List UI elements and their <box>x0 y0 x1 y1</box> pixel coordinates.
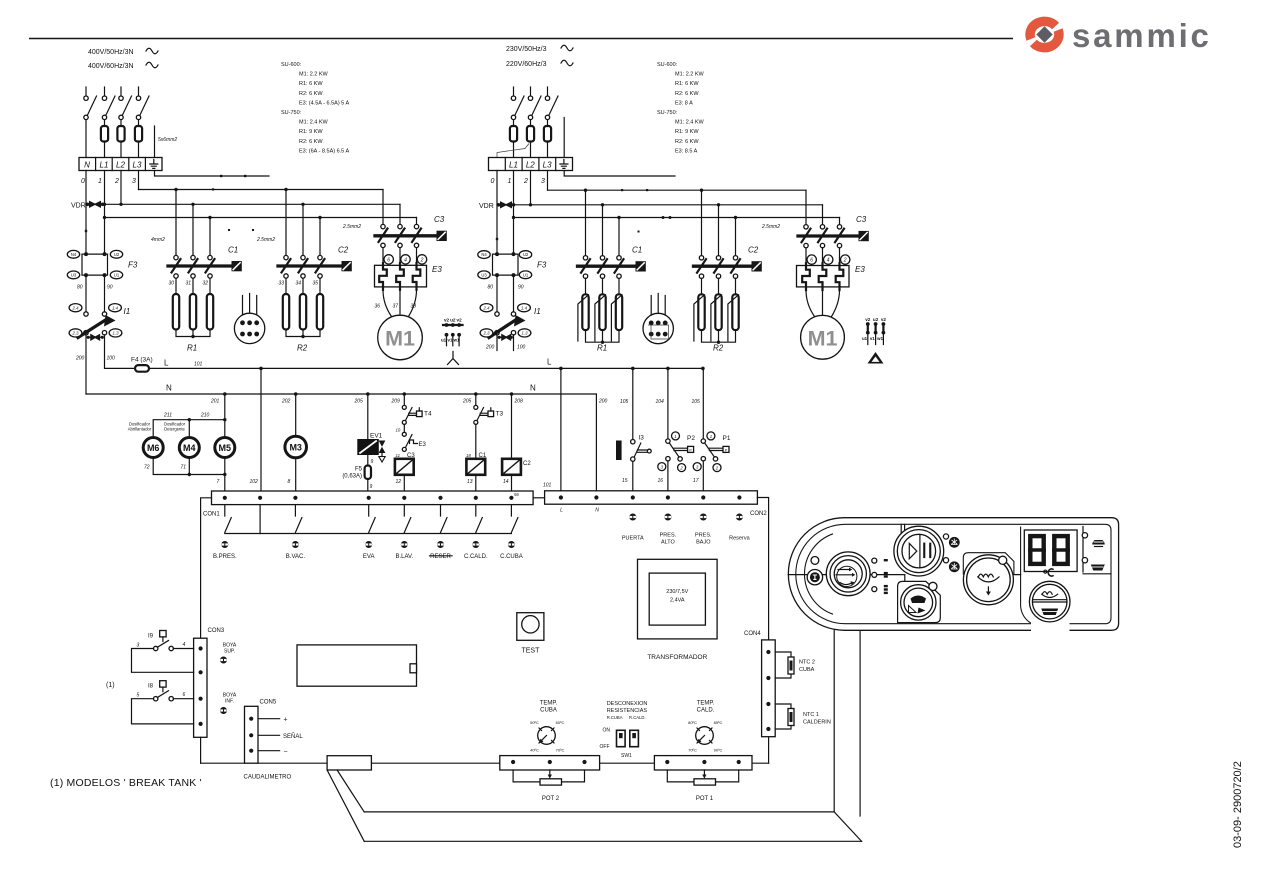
svg-text:NTC 2: NTC 2 <box>799 660 815 666</box>
svg-text:I1: I1 <box>124 307 131 316</box>
svg-text:90: 90 <box>107 285 113 291</box>
svg-text:v2: v2 <box>444 318 450 323</box>
spec text block left <box>281 62 349 154</box>
motor M1 right <box>806 290 840 317</box>
svg-text:(1): (1) <box>106 682 115 689</box>
right mini section <box>1083 527 1111 574</box>
svg-text:R.CUBA: R.CUBA <box>607 715 623 720</box>
ribbon cable <box>327 770 364 841</box>
svg-text:+: + <box>284 717 288 724</box>
rail 2 <box>86 203 400 205</box>
coil C3 <box>395 453 415 475</box>
svg-text:L: L <box>164 359 169 368</box>
display section divider <box>1021 527 1032 624</box>
svg-text:205: 205 <box>354 399 364 405</box>
svg-text:U3: U3 <box>481 272 487 277</box>
rail 2 right <box>497 204 823 206</box>
svg-text:u2: u2 <box>450 318 456 323</box>
svg-text:40ºC: 40ºC <box>530 748 539 753</box>
CON1 cable pins <box>221 541 515 548</box>
svg-text:R2: 6 KW: R2: 6 KW <box>675 91 699 97</box>
svg-text:2.5mm2: 2.5mm2 <box>342 224 361 230</box>
svg-text:M5: M5 <box>219 443 232 453</box>
PCB right edge <box>757 498 768 764</box>
CON1-CON2 link <box>533 497 545 499</box>
svg-text:90: 90 <box>518 285 524 291</box>
svg-text:2: 2 <box>843 258 847 264</box>
earth run <box>155 171 270 177</box>
svg-text:PRES.: PRES. <box>660 533 677 539</box>
LED temp1 + steam icon <box>1082 533 1087 538</box>
svg-text:M1: M1 <box>385 327 415 351</box>
POT1 potentiometer <box>667 770 738 782</box>
svg-text:200: 200 <box>75 356 85 362</box>
svg-text:CAUDALIMETRO: CAUDALIMETRO <box>244 775 292 781</box>
PCB left edge <box>201 498 212 638</box>
svg-text:2.5mm2: 2.5mm2 <box>761 224 780 230</box>
wire 209 / thermostat T4 <box>403 394 405 405</box>
contactor C1 <box>168 246 242 287</box>
svg-text:C1: C1 <box>479 453 487 459</box>
wire 0 down <box>496 171 498 255</box>
CON5 <box>245 706 259 763</box>
wire L3 down <box>547 171 549 191</box>
svg-text:2.4: 2.4 <box>483 306 491 311</box>
wire L1 down <box>513 171 515 255</box>
svg-text:L2: L2 <box>526 161 535 170</box>
svg-text:M3: M3 <box>289 442 302 452</box>
mains switch pole L3 + fuse <box>135 87 149 158</box>
svg-text:INF.: INF. <box>225 699 234 705</box>
svg-text:2.3: 2.3 <box>483 331 491 336</box>
svg-text:−: − <box>284 749 288 756</box>
7seg digit 1 <box>1028 536 1046 564</box>
svg-text:CALDERIN: CALDERIN <box>803 720 831 726</box>
svg-text:2.5mm2: 2.5mm2 <box>256 237 275 243</box>
svg-text:T3: T3 <box>496 411 504 418</box>
svg-text:CUBA: CUBA <box>540 708 557 714</box>
svg-text:200: 200 <box>598 399 608 405</box>
LED temp2 + pot icon <box>1082 558 1087 563</box>
svg-text:N4: N4 <box>481 252 487 257</box>
wire 200 to N <box>85 335 87 394</box>
float switch I9 <box>132 631 194 673</box>
svg-text:EVA: EVA <box>363 554 375 560</box>
7seg digit 2 <box>1052 536 1070 564</box>
svg-text:(1) MODELOS ' BREAK TANK ': (1) MODELOS ' BREAK TANK ' <box>50 777 202 789</box>
svg-text:VDR: VDR <box>479 203 494 210</box>
svg-text:L3: L3 <box>133 161 142 170</box>
section divider top <box>901 524 904 538</box>
svg-text:209: 209 <box>391 399 401 405</box>
POT2 strip <box>500 756 600 770</box>
svg-text:80: 80 <box>77 285 83 291</box>
svg-text:C3: C3 <box>407 453 415 459</box>
svg-text:(0,63A): (0,63A) <box>342 474 362 480</box>
svg-text:ALTO: ALTO <box>661 540 676 546</box>
wash button <box>963 555 1013 605</box>
svg-text:v2: v2 <box>865 317 871 322</box>
wires F3 to I1 right <box>497 275 514 312</box>
svg-text:u1: u1 <box>862 336 868 341</box>
svg-text:P2: P2 <box>687 435 695 442</box>
6-pin connector right <box>643 294 673 344</box>
svg-text:M1: 2.4 KW: M1: 2.4 KW <box>675 120 705 126</box>
rail 1 right <box>548 189 807 191</box>
svg-text:TEST: TEST <box>521 648 540 655</box>
float switch I8 <box>132 681 194 724</box>
wire 8 to CON1 <box>295 458 297 491</box>
E3 right <box>806 248 840 266</box>
heaters R1 right <box>586 278 620 294</box>
transformer <box>638 559 718 639</box>
heaters R2 right <box>702 278 736 294</box>
panel outer bezel <box>788 518 1118 631</box>
motor M4 <box>179 438 199 458</box>
svg-text:6: 6 <box>183 692 186 698</box>
svg-text:10: 10 <box>396 428 401 433</box>
CON1 output blades <box>225 505 512 516</box>
svg-text:CUBA: CUBA <box>799 667 815 673</box>
svg-text:C2: C2 <box>338 246 349 255</box>
star symbol <box>448 352 459 365</box>
svg-text:104: 104 <box>656 399 665 405</box>
svg-text:SEÑAL: SEÑAL <box>283 733 303 740</box>
svg-text:B.VAC.: B.VAC. <box>286 554 306 560</box>
svg-text:16: 16 <box>658 478 664 484</box>
svg-text:TEMP.: TEMP. <box>697 701 715 707</box>
svg-text:R2: R2 <box>713 344 724 353</box>
svg-text:400V/50Hz/3N: 400V/50Hz/3N <box>88 49 134 56</box>
svg-text:105: 105 <box>620 399 629 405</box>
svg-text:C.CALD.: C.CALD. <box>464 554 488 560</box>
svg-text:101: 101 <box>194 362 203 368</box>
svg-text:E3: (4.5A - 6.5A) 5 A: E3: (4.5A - 6.5A) 5 A <box>299 100 349 106</box>
svg-text:4: 4 <box>827 258 830 264</box>
IC chip <box>297 645 417 686</box>
svg-text:POT 2: POT 2 <box>542 796 560 802</box>
svg-text:u2: u2 <box>873 317 879 322</box>
svg-text:EV1: EV1 <box>370 433 383 440</box>
svg-text:F3: F3 <box>537 261 547 270</box>
F3 right <box>478 251 547 291</box>
PCB left edge lower <box>200 737 202 763</box>
svg-text:R2: R2 <box>297 344 308 353</box>
svg-text:32: 32 <box>203 281 209 287</box>
svg-text:M6: M6 <box>147 443 160 453</box>
svg-text:CON5: CON5 <box>260 700 277 706</box>
svg-text:PRES.: PRES. <box>695 533 712 539</box>
svg-text:208: 208 <box>514 399 524 405</box>
svg-text:33: 33 <box>279 281 285 287</box>
svg-text:201: 201 <box>210 399 220 405</box>
panel inner bezel <box>796 524 1111 623</box>
svg-text:Reserva: Reserva <box>729 536 750 542</box>
svg-text:6: 6 <box>810 258 813 264</box>
N line <box>86 393 596 395</box>
svg-text:U2: U2 <box>114 252 120 257</box>
svg-text:400V/60Hz/3N: 400V/60Hz/3N <box>88 63 134 70</box>
dosing pump return bus <box>153 458 225 475</box>
fuse F4 <box>135 365 149 372</box>
cycle dial <box>826 552 870 596</box>
svg-text:3: 3 <box>541 178 545 185</box>
junction dots rails <box>103 203 106 206</box>
svg-text:70ºC: 70ºC <box>556 748 565 753</box>
svg-text:211: 211 <box>163 413 172 419</box>
panel third arc <box>804 534 833 614</box>
svg-text:1: 1 <box>98 178 102 185</box>
svg-text:PUERTA: PUERTA <box>622 536 644 542</box>
6-pin connector left <box>234 294 264 344</box>
earth lead-in right <box>563 118 565 158</box>
rail 1 <box>139 189 384 191</box>
svg-text:N4: N4 <box>71 252 77 257</box>
option jumper wire <box>497 144 529 158</box>
svg-text:220V/60Hz/3: 220V/60Hz/3 <box>506 61 547 68</box>
E3 left <box>383 248 417 266</box>
wire 7 to CON1 <box>224 458 226 492</box>
svg-text:C3: C3 <box>434 215 445 224</box>
svg-text:2: 2 <box>114 178 119 185</box>
motor M1 left <box>383 290 417 317</box>
svg-text:R1: 6 KW: R1: 6 KW <box>675 81 699 87</box>
svg-text:202: 202 <box>281 399 291 405</box>
svg-text:RESISTENCIAS: RESISTENCIAS <box>607 708 648 714</box>
svg-text:F3: F3 <box>128 261 138 270</box>
drops to C1 <box>176 190 210 256</box>
wire 208 / coil C2 <box>511 394 513 459</box>
terminal block right <box>489 158 573 171</box>
svg-text:11: 11 <box>396 453 401 458</box>
svg-text:v2: v2 <box>457 318 463 323</box>
svg-text:80: 80 <box>488 285 494 291</box>
rinse aid LED + icon <box>943 534 948 539</box>
N drop to CON2 <box>595 394 597 491</box>
svg-text:SU-600:: SU-600: <box>657 62 678 68</box>
svg-text:200: 200 <box>485 345 495 351</box>
svg-text:1.3: 1.3 <box>522 331 529 336</box>
svg-text:E3: E3 <box>432 265 442 274</box>
svg-text:56: 56 <box>514 492 519 497</box>
svg-text:I3: I3 <box>639 435 645 442</box>
display box <box>1024 530 1077 572</box>
program icons <box>884 559 888 561</box>
svg-text:E3: E3 <box>419 442 427 448</box>
N junction dots <box>223 392 227 396</box>
svg-text:T4: T4 <box>424 411 432 418</box>
fuse F5 <box>367 455 369 466</box>
switch I1 left <box>69 304 130 341</box>
svg-text:P: P <box>725 448 728 452</box>
heaters R2 left <box>286 278 320 294</box>
NTC 1 <box>775 704 791 729</box>
L drop to CON2 <box>560 368 562 490</box>
sammic logo S icon <box>1030 21 1059 47</box>
svg-text:R1: 6 KW: R1: 6 KW <box>299 81 323 87</box>
earth run right <box>564 171 675 177</box>
svg-text:SW1: SW1 <box>621 753 632 759</box>
svg-text:L: L <box>547 358 552 367</box>
svg-text:B.LAV.: B.LAV. <box>395 554 413 560</box>
svg-text:205: 205 <box>462 399 472 405</box>
svg-text:210: 210 <box>200 413 210 419</box>
svg-text:w1: w1 <box>453 338 460 343</box>
svg-text:F5: F5 <box>355 467 363 473</box>
L line <box>149 367 703 369</box>
svg-text:3: 3 <box>137 643 140 649</box>
svg-text:I8: I8 <box>148 684 154 690</box>
svg-text:M4: M4 <box>183 443 196 453</box>
svg-text:M1: 2.2 KW: M1: 2.2 KW <box>675 72 705 78</box>
motor M6 <box>143 438 163 458</box>
svg-text:NTC 1: NTC 1 <box>803 712 819 718</box>
svg-text:E3: E3 <box>855 265 865 274</box>
svg-text:0: 0 <box>81 178 85 185</box>
svg-text:5: 5 <box>137 693 140 699</box>
svg-text:CON2: CON2 <box>750 511 767 517</box>
svg-text:SU-750:: SU-750: <box>281 110 302 116</box>
svg-text:102: 102 <box>250 479 259 485</box>
motor M5 <box>215 438 235 458</box>
svg-text:72: 72 <box>144 465 150 471</box>
wire 104 / pressure switch P2 <box>667 368 669 439</box>
svg-text:L3: L3 <box>543 161 552 170</box>
svg-text:N: N <box>166 384 172 393</box>
svg-text:C.CUBA: C.CUBA <box>500 554 523 560</box>
svg-text:35: 35 <box>313 281 319 287</box>
earth lead-in <box>154 126 156 158</box>
svg-text:ON: ON <box>603 728 611 734</box>
svg-text:N: N <box>595 508 599 514</box>
terminal block left <box>79 158 162 171</box>
svg-text:71: 71 <box>181 465 187 471</box>
svg-text:Detergente: Detergente <box>164 427 185 432</box>
svg-text:L1: L1 <box>100 161 109 170</box>
svg-text:U1: U1 <box>523 272 529 277</box>
svg-text:w1: w1 <box>876 336 883 341</box>
wire L2 down <box>530 171 532 205</box>
svg-text:R1: 9 KW: R1: 9 KW <box>299 129 323 135</box>
F3 left <box>67 250 138 290</box>
svg-text:1: 1 <box>508 178 512 185</box>
svg-text:C2: C2 <box>748 246 759 255</box>
svg-text:C3: C3 <box>856 215 867 224</box>
svg-text:v1: v1 <box>870 336 875 341</box>
ribbon connector <box>327 756 371 770</box>
thermostat contact E3 <box>402 424 426 451</box>
svg-text:OFF: OFF <box>600 744 610 750</box>
svg-text:230V/50Hz/3: 230V/50Hz/3 <box>506 46 547 53</box>
rail 3 right <box>514 217 840 219</box>
svg-text:CON3: CON3 <box>208 628 225 634</box>
svg-text:Abrillantador: Abrillantador <box>128 427 152 432</box>
motor terminal cluster right (delta) <box>862 317 886 345</box>
svg-text:u1: u1 <box>441 338 447 343</box>
svg-text:12: 12 <box>396 479 402 485</box>
coil C1 <box>466 453 486 475</box>
svg-text:R1: 9 KW: R1: 9 KW <box>675 129 699 135</box>
rail junction dots right <box>529 203 532 206</box>
wire 100 stub right <box>513 335 515 351</box>
svg-text:37: 37 <box>393 304 399 310</box>
svg-text:31: 31 <box>186 281 192 287</box>
svg-text:2: 2 <box>523 178 528 185</box>
svg-text:60ºC: 60ºC <box>556 720 565 725</box>
CON2 cable pins <box>629 514 743 521</box>
svg-text:SUP.: SUP. <box>224 649 235 655</box>
svg-text:F4 (3A): F4 (3A) <box>131 357 153 364</box>
svg-text:9: 9 <box>370 484 373 490</box>
PCB bottom edge <box>201 762 769 764</box>
svg-text:E3: (6A - 8.5A) 6.5 A: E3: (6A - 8.5A) 6.5 A <box>299 148 349 154</box>
svg-text:2.3: 2.3 <box>72 331 80 336</box>
svg-text:6: 6 <box>387 257 390 263</box>
svg-text:85ºC: 85ºC <box>714 720 723 725</box>
svg-text:90ºC: 90ºC <box>714 748 723 753</box>
svg-text:CALD.: CALD. <box>697 708 715 714</box>
svg-text:105: 105 <box>692 399 701 405</box>
svg-text:CON4: CON4 <box>744 631 761 637</box>
panel legs <box>834 631 860 817</box>
svg-text:L: L <box>560 508 563 514</box>
svg-text:I1: I1 <box>534 307 541 316</box>
svg-text:7: 7 <box>217 479 220 485</box>
svg-text:101: 101 <box>543 483 552 489</box>
svg-text:POT 1: POT 1 <box>696 796 714 802</box>
svg-text:P1: P1 <box>723 435 731 442</box>
svg-text:RESER: RESER <box>430 554 451 560</box>
svg-text:U2: U2 <box>523 252 529 257</box>
svg-text:BAJO: BAJO <box>696 540 711 546</box>
svg-text:SU-750:: SU-750: <box>657 110 678 116</box>
svg-text:2.4: 2.4 <box>72 306 80 311</box>
svg-text:8: 8 <box>288 479 291 485</box>
svg-text:1.3: 1.3 <box>113 331 120 336</box>
detergent LED + icon <box>943 558 948 563</box>
svg-text:R1: R1 <box>597 344 607 353</box>
wire 205 / EV1 <box>367 394 369 440</box>
svg-text:L1: L1 <box>509 161 518 170</box>
svg-text:C2: C2 <box>523 461 531 467</box>
svg-text:1.4: 1.4 <box>112 306 119 311</box>
svg-text:R2: 6 KW: R2: 6 KW <box>299 91 323 97</box>
wire 206 / thermostat T3 <box>475 394 477 405</box>
svg-text:100: 100 <box>107 356 116 362</box>
wire L3 down <box>138 171 140 190</box>
wash button frame <box>963 553 1014 575</box>
svg-text:50ºC: 50ºC <box>530 720 539 725</box>
motor terminal cluster left (star) <box>441 318 463 346</box>
wire 202 / motor M3 <box>295 394 297 436</box>
rail 3 <box>105 217 417 219</box>
mains switch pole L1 + fuse <box>101 87 115 158</box>
svg-text:17: 17 <box>693 478 699 484</box>
wire L2 down <box>120 171 122 205</box>
solenoid valve EV1 <box>358 433 386 463</box>
svg-text:N: N <box>84 161 90 170</box>
svg-text:v2: v2 <box>881 317 887 322</box>
svg-text:R2: 6 KW: R2: 6 KW <box>675 139 699 145</box>
CON4 <box>762 640 776 737</box>
svg-text:M1: 2.2 KW: M1: 2.2 KW <box>299 72 329 78</box>
CON1 pins <box>223 496 227 500</box>
svg-text:5x6mm2: 5x6mm2 <box>158 137 177 143</box>
svg-text:M1: M1 <box>808 326 838 350</box>
svg-text:SU-600:: SU-600: <box>281 62 302 68</box>
svg-text:VDR: VDR <box>71 203 86 210</box>
wires F3 to I1 <box>85 275 87 312</box>
